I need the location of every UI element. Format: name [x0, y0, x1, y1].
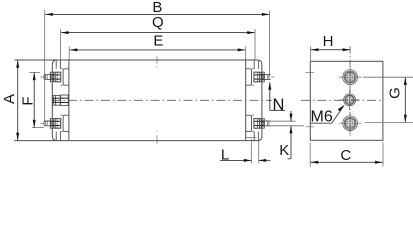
base plate edge stubs — [61, 68, 64, 70]
svg-text:G: G — [387, 87, 404, 99]
stud edge extension lines bottom-right — [268, 120, 295, 122]
terminal circle bottom (end view) — [345, 118, 355, 128]
svg-text:H: H — [323, 33, 334, 50]
right flange plate lines — [257, 60, 259, 69]
body outline with end flanges — [14, 60, 262, 141]
terminal centerline dashes — [40, 76, 43, 78]
body right face — [245, 60, 247, 141]
terminal bottom-left — [44, 121, 50, 126]
dimension Q — [60, 29, 62, 60]
dimension F (rotated) — [29, 71, 40, 73]
dimension B — [44, 10, 46, 121]
end view vertical centerline — [349, 46, 351, 137]
svg-text:K: K — [279, 142, 289, 159]
terminal circle top (end view) — [345, 72, 355, 82]
dimension H — [310, 46, 312, 60]
terminal top-right — [263, 75, 271, 80]
dimension N — [269, 82, 271, 110]
terminal bottom-right — [263, 121, 271, 126]
end view horizontal centerline — [301, 99, 382, 101]
svg-text:A: A — [1, 94, 18, 104]
dimension A (rotated) — [17, 60, 19, 140]
svg-text:C: C — [340, 147, 351, 164]
svg-text:F: F — [19, 96, 36, 105]
svg-text:N: N — [273, 96, 285, 114]
svg-text:L: L — [221, 146, 229, 163]
bracket foot step line right — [246, 136, 256, 138]
vertical center mark top — [156, 56, 158, 64]
dimension G (rotated) — [363, 76, 413, 78]
terminal M6 stud top-left — [44, 75, 50, 80]
vertical center mark bottom — [156, 135, 158, 144]
terminal circle middle M6 (end view) — [345, 96, 354, 105]
svg-text:E: E — [153, 32, 163, 49]
dimension E — [68, 47, 70, 60]
dimension C — [309, 143, 311, 167]
horizontal centerline of side view — [52, 99, 273, 101]
svg-text:Q: Q — [152, 14, 164, 31]
left flange outer edge — [52, 60, 57, 141]
terminal middle-left (earth) — [53, 95, 60, 105]
left flange plate lines — [55, 60, 57, 69]
dimension K — [290, 126, 292, 159]
end view housing rect — [310, 61, 383, 140]
body left face — [68, 60, 70, 141]
datum ticks on end view left edge — [305, 71, 313, 73]
dimension L — [250, 139, 252, 164]
terminal base plates on body faces — [63, 69, 69, 85]
